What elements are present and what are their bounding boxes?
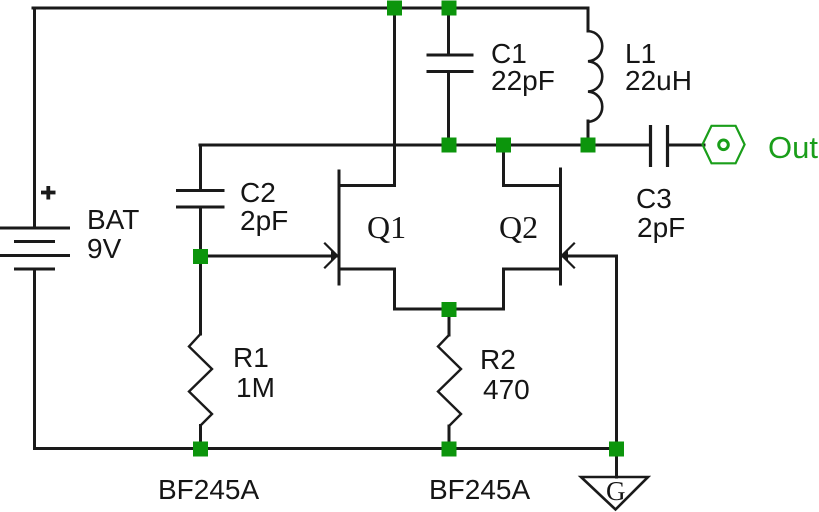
capacitor C1 [427,8,474,145]
capacitor C3 [651,125,668,167]
wire tank net horizontal [200,144,650,147]
svg-text:2pF: 2pF [240,205,288,236]
svg-text:2pF: 2pF [637,212,685,243]
resistor R2 [438,309,461,449]
svg-text:9V: 9V [87,233,122,264]
node bottom rail / R2 bottom [442,442,457,457]
wire C3 to output port [668,144,705,147]
svg-text:1M: 1M [236,372,275,403]
node bottom rail / R1 bottom [193,442,208,457]
node C2 / Q1 gate / R1 top [193,249,208,264]
ground [581,449,648,510]
capacitor C1 label [491,38,555,96]
capacitor C2 label [240,177,288,236]
svg-text:R2: R2 [480,344,516,375]
svg-text:G: G [606,476,626,506]
svg-text:22pF: 22pF [491,65,555,96]
node sources / R2 top [442,302,457,317]
svg-text:BAT: BAT [87,204,139,235]
node tank / C1 bottom [442,138,457,153]
node bottom rail / ground [609,442,624,457]
capacitor C2 [176,145,225,256]
node tank / Q2 drain [496,138,511,153]
svg-text:BF245A: BF245A [429,474,530,505]
svg-text:C3: C3 [636,183,672,214]
inductor L1 [588,8,602,145]
capacitor C3 label [636,183,685,243]
svg-text:Out: Out [768,130,818,165]
node top rail / C1 top [442,1,457,16]
node tank / L1 bottom [581,138,596,153]
svg-text:Q2: Q2 [499,209,538,245]
transistor Q2 (JFET BF245A) [449,145,617,449]
battery label BAT 9V [87,204,139,264]
svg-text:R1: R1 [233,342,269,373]
svg-text:470: 470 [483,374,530,405]
resistor R1 label [233,342,275,403]
inductor L1 label [625,38,692,96]
svg-text:22uH: 22uH [625,65,692,96]
node top rail / Q1 drain [387,1,402,16]
wire top rail [33,7,588,10]
wire bottom rail [35,447,617,450]
svg-text:Q1: Q1 [367,209,406,245]
wire left vertical to battery + [33,8,36,228]
resistor R2 label [480,344,530,405]
transistor Q1 (JFET BF245A) [200,8,449,309]
resistor R1 [189,256,212,449]
wire battery bottom to bottom rail [33,269,36,449]
battery BAT [0,186,70,269]
svg-text:BF245A: BF245A [158,474,259,505]
output port Out [703,126,745,164]
svg-text:C2: C2 [240,177,276,208]
